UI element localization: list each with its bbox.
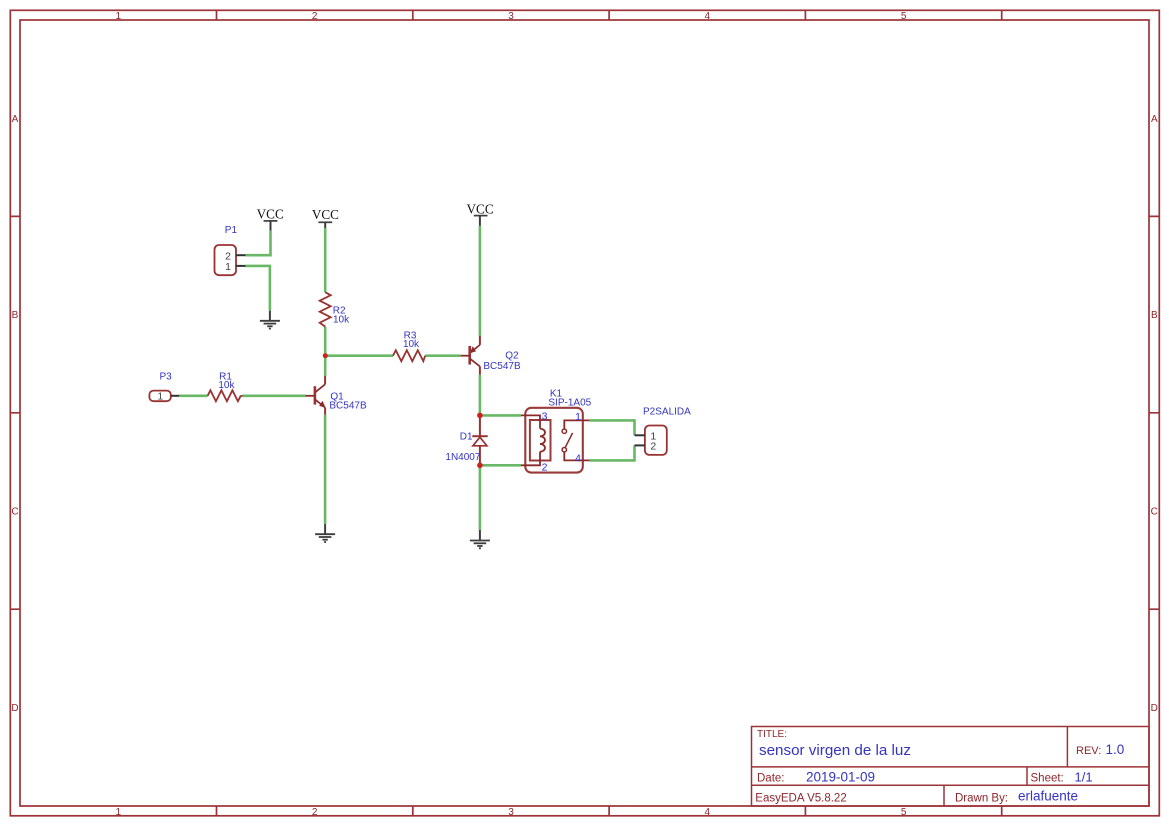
svg-text:5: 5 [901, 807, 907, 818]
power flag VCC (Q2) [467, 201, 494, 226]
svg-text:VCC: VCC [467, 201, 494, 216]
svg-text:sensor virgen de la luz: sensor virgen de la luz [759, 742, 911, 759]
svg-text:Sheet:: Sheet: [1031, 773, 1064, 785]
svg-text:1: 1 [575, 411, 581, 423]
svg-text:P2SALIDA: P2SALIDA [643, 407, 691, 418]
svg-text:10k: 10k [333, 315, 350, 326]
connector P1 [215, 225, 246, 275]
relay pin 1 and switch [564, 420, 589, 429]
wire node to R3 [325, 354, 393, 357]
wire relay pin 4 to P2 pin 2 [590, 445, 635, 460]
svg-text:10k: 10k [403, 339, 420, 350]
svg-text:A: A [12, 114, 19, 125]
svg-text:C: C [11, 507, 18, 518]
svg-text:TITLE:: TITLE: [757, 729, 787, 740]
relay pin 3 [521, 415, 540, 420]
svg-text:3: 3 [542, 410, 548, 422]
svg-text:4: 4 [705, 11, 711, 22]
connector P2SALIDA [635, 407, 692, 455]
svg-text:4: 4 [705, 807, 711, 818]
svg-text:1N4007: 1N4007 [445, 452, 480, 463]
svg-text:P3: P3 [160, 372, 173, 383]
ground (relay branch) [470, 530, 490, 549]
svg-text:Q2: Q2 [505, 351, 519, 362]
junction node Q2/D1/K1 top [477, 413, 483, 419]
resistor R3 [393, 330, 425, 361]
svg-text:1: 1 [225, 261, 231, 273]
relay pin 4 [564, 452, 589, 460]
diode D1 [445, 415, 487, 465]
relay K1 [521, 388, 592, 473]
svg-text:2: 2 [542, 461, 548, 473]
wire node to ground [479, 465, 482, 530]
svg-text:1: 1 [116, 807, 122, 818]
svg-text:VCC: VCC [312, 207, 339, 222]
ground (Q1 emitter) [315, 524, 335, 542]
svg-text:BC547B: BC547B [329, 400, 367, 411]
power flag VCC (R2) [312, 207, 339, 228]
title block [752, 727, 1150, 807]
wire P1 pin1 to ground [246, 266, 270, 311]
wire R3 to Q2 base [425, 354, 460, 357]
junction node D1/K1 bottom [477, 463, 483, 469]
ground (P1 pin1) [260, 311, 280, 329]
svg-text:BC547B: BC547B [483, 361, 521, 372]
wire R1 to Q1 base [243, 394, 306, 397]
svg-text:1: 1 [116, 11, 122, 22]
wire Q2 collector to node [479, 375, 482, 416]
svg-text:10k: 10k [218, 380, 235, 391]
wire R2 to Q1 collector [324, 327, 327, 376]
svg-text:5: 5 [901, 11, 907, 22]
connector P3 [149, 372, 179, 403]
wire node to relay pin 2 [480, 464, 521, 467]
svg-text:REV:: REV: [1076, 745, 1101, 757]
wire VCC to R2 [324, 228, 327, 292]
svg-text:1/1: 1/1 [1075, 769, 1093, 784]
svg-text:B: B [12, 310, 19, 321]
svg-text:4: 4 [575, 452, 581, 464]
svg-text:erlafuente: erlafuente [1018, 789, 1078, 804]
svg-text:3: 3 [508, 11, 514, 22]
wire relay pin 1 to P2 pin 1 [590, 420, 635, 435]
svg-text:1.0: 1.0 [1106, 742, 1125, 757]
svg-text:2: 2 [650, 441, 656, 453]
wire node to relay pin 3 [480, 414, 521, 417]
transistor Q2 [461, 336, 521, 375]
svg-text:D: D [1151, 703, 1158, 714]
svg-text:Drawn By:: Drawn By: [955, 792, 1008, 804]
wire P1 pin2 to VCC [246, 231, 271, 256]
transistor Q1 [306, 376, 367, 415]
relay coil [540, 420, 545, 461]
svg-text:EasyEDA V5.8.22: EasyEDA V5.8.22 [755, 792, 846, 804]
wire Q1 emitter to ground [324, 415, 327, 524]
resistor R1 [208, 372, 243, 402]
svg-text:VCC: VCC [257, 207, 284, 222]
svg-text:2: 2 [312, 807, 318, 818]
svg-text:B: B [1151, 310, 1158, 321]
resistor R2 [320, 292, 350, 326]
power flag VCC (P1) [257, 207, 284, 231]
svg-text:C: C [1151, 507, 1158, 518]
wire VCC to Q2 emitter [479, 226, 482, 336]
svg-text:1: 1 [158, 392, 164, 403]
svg-text:D: D [11, 703, 18, 714]
wire P3 to R1 [179, 394, 207, 397]
svg-text:D1: D1 [460, 431, 473, 442]
junction node R2/R3 [323, 353, 328, 358]
svg-text:2019-01-09: 2019-01-09 [806, 769, 875, 784]
svg-text:P1: P1 [225, 225, 238, 236]
svg-text:SIP-1A05: SIP-1A05 [548, 397, 591, 408]
svg-text:3: 3 [508, 807, 514, 818]
svg-text:A: A [1151, 114, 1158, 125]
relay pin 2 [521, 461, 540, 466]
svg-text:Date:: Date: [757, 773, 785, 785]
svg-text:2: 2 [312, 11, 318, 22]
